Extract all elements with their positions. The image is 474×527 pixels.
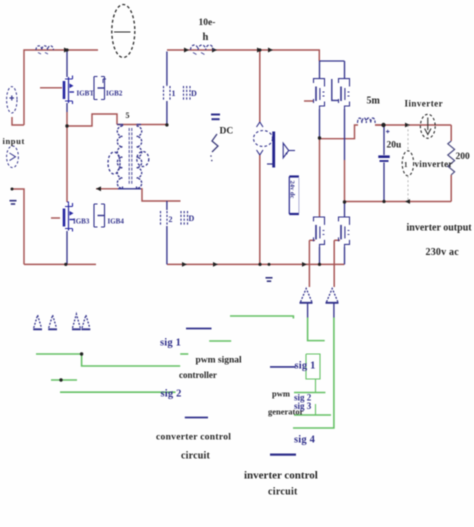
svg-text:h: h — [203, 32, 209, 43]
svg-text:circuit: circuit — [268, 487, 298, 498]
svg-text:20u: 20u — [387, 141, 403, 151]
svg-text:D: D — [191, 89, 197, 98]
svg-text:1: 1 — [172, 89, 176, 98]
svg-text:5m: 5m — [367, 96, 381, 107]
svg-text:converter control: converter control — [156, 433, 231, 443]
svg-text:inverter control: inverter control — [244, 470, 318, 482]
svg-text:2: 2 — [169, 215, 173, 224]
svg-text:DC: DC — [220, 127, 234, 137]
svg-text:230v ac: 230v ac — [426, 247, 460, 258]
svg-text:5: 5 — [126, 111, 130, 120]
svg-text:Iinverter: Iinverter — [405, 99, 444, 109]
svg-text:IGB2: IGB2 — [106, 90, 123, 98]
svg-text:sig 3: sig 3 — [294, 401, 312, 411]
svg-text:sig 1: sig 1 — [160, 338, 181, 349]
svg-text:sig 1: sig 1 — [295, 361, 316, 372]
svg-text:sig 2: sig 2 — [161, 389, 182, 400]
svg-text:sig 4: sig 4 — [294, 435, 316, 446]
svg-text:1: 1 — [404, 161, 408, 169]
svg-text:24v dc: 24v dc — [289, 181, 296, 199]
svg-text:vinverter: vinverter — [415, 159, 453, 169]
svg-text:10e-: 10e- — [199, 18, 216, 28]
svg-text:IGB3: IGB3 — [73, 218, 90, 226]
svg-text:pwm signal: pwm signal — [196, 356, 243, 366]
svg-text:controller: controller — [179, 370, 217, 380]
svg-text:inverter output: inverter output — [407, 223, 473, 234]
svg-text:IGB4: IGB4 — [108, 218, 125, 226]
svg-text:circuit: circuit — [181, 451, 210, 462]
svg-text:IGBT: IGBT — [77, 90, 95, 98]
svg-text:200: 200 — [456, 152, 471, 162]
svg-text:pwm: pwm — [272, 389, 290, 399]
svg-text:input: input — [3, 136, 25, 146]
svg-text:D: D — [189, 214, 195, 223]
